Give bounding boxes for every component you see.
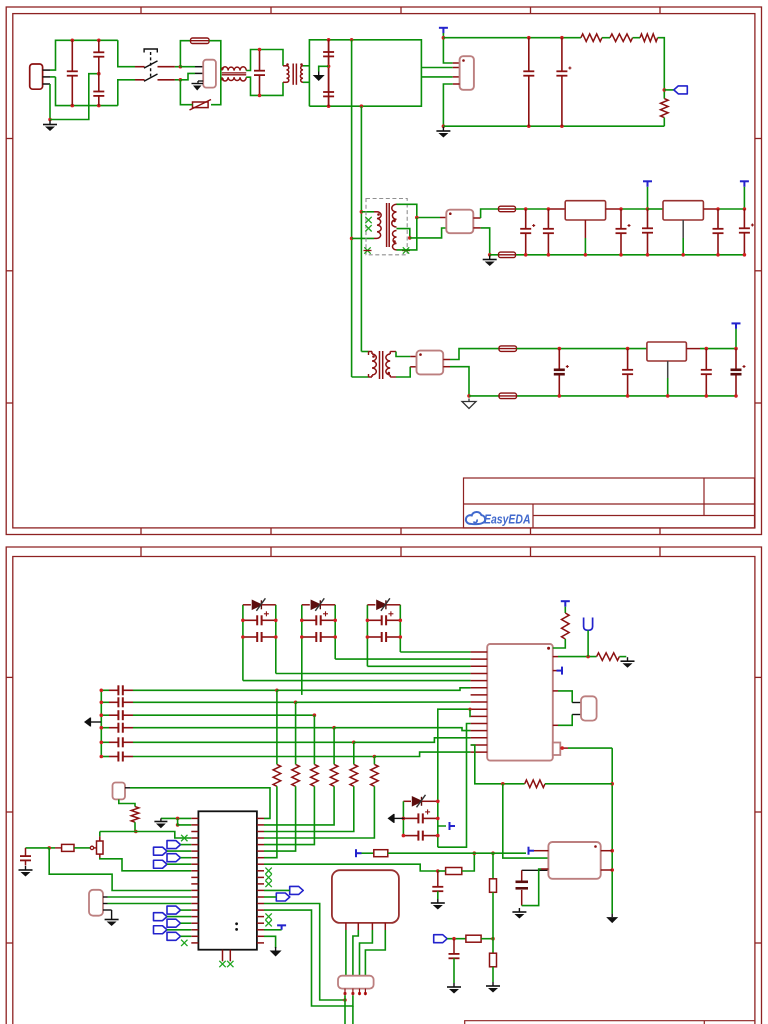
diode D2 — [302, 604, 310, 606]
bottom rail — [443, 125, 664, 127]
resistor R8 — [119, 799, 135, 806]
junction — [71, 39, 75, 43]
capacitor C8 — [520, 209, 535, 255]
long wire MCU right — [264, 864, 438, 871]
VCC side flag — [438, 825, 446, 827]
net tag — [154, 913, 168, 921]
wire — [619, 656, 626, 658]
cap D2 — [302, 632, 335, 642]
wire to MCU nc pin — [136, 832, 192, 839]
junction — [610, 868, 614, 872]
junction — [402, 817, 406, 821]
MCU left pin — [191, 817, 198, 819]
junction — [705, 347, 709, 351]
U7 pin stub — [471, 687, 488, 689]
resistor R11 — [446, 868, 462, 875]
black arrow gnd — [264, 936, 276, 948]
junction — [100, 689, 104, 693]
nc mark — [265, 881, 271, 887]
ground — [606, 914, 618, 924]
wire — [658, 38, 665, 99]
MCU right pin — [257, 850, 264, 852]
regulator U1 — [460, 56, 474, 90]
wire — [735, 329, 737, 349]
MCU right pin — [257, 863, 264, 865]
MCU right pin — [257, 942, 264, 944]
capacitor C30 — [26, 847, 50, 849]
wire down A — [264, 904, 345, 1001]
wire bottom exits — [344, 995, 346, 1024]
junction — [258, 94, 262, 98]
U7 bottom loop — [471, 745, 525, 784]
junction — [743, 253, 747, 257]
snubber group 2 wires — [301, 605, 303, 695]
wire — [175, 66, 181, 68]
snubber group 1 wires — [242, 605, 244, 681]
regulator U6 — [647, 342, 687, 361]
net label tag — [674, 86, 688, 94]
wire — [703, 208, 718, 210]
junction — [415, 216, 419, 220]
wire — [180, 80, 192, 105]
junction — [524, 253, 528, 257]
wire bus line — [133, 689, 277, 691]
resistor R12 — [374, 850, 388, 857]
wire — [648, 208, 664, 210]
wire W2 down — [438, 724, 471, 848]
U7 pin stub — [471, 751, 488, 753]
MCU right pin — [257, 889, 264, 891]
bus cap C20 — [101, 689, 109, 691]
capacitor C11 — [642, 209, 653, 255]
junction — [97, 39, 101, 43]
junction — [332, 726, 336, 730]
MCU gnd top-left — [161, 817, 191, 819]
resistor R1 — [581, 34, 602, 42]
junction — [360, 104, 364, 108]
junction — [586, 655, 590, 659]
resistor R10 — [62, 844, 74, 851]
MCU right pin — [257, 876, 264, 878]
resistor R15 — [373, 757, 375, 765]
pin dot — [364, 992, 367, 995]
wire — [352, 376, 369, 378]
wire — [108, 896, 192, 898]
junction — [646, 207, 650, 211]
ground — [105, 916, 119, 927]
VCC flag — [561, 601, 570, 607]
net tag — [154, 926, 168, 934]
net tag — [167, 906, 181, 914]
wire — [246, 50, 283, 71]
snubber group 3 wires — [366, 605, 368, 667]
MCU left pin — [191, 916, 198, 918]
MCU left pin — [191, 831, 198, 833]
MCU left pin — [191, 837, 198, 839]
wire bus line — [133, 701, 296, 703]
pin dot — [351, 992, 354, 995]
MCU left pin — [191, 935, 198, 937]
resistor R4 — [661, 99, 669, 118]
fuse F5 — [499, 393, 517, 399]
junction — [584, 253, 588, 257]
U7 pin stub — [471, 723, 488, 725]
wire long to MCU pin1 — [125, 787, 130, 789]
capacitor C4 C5 chain — [328, 40, 330, 106]
pin dot — [343, 992, 346, 995]
net tag — [167, 854, 181, 862]
crystal X1 — [553, 690, 558, 692]
wire to U7 pin1 — [400, 651, 470, 653]
net tag — [167, 932, 181, 940]
resistor R14 — [353, 742, 355, 764]
arrow flag — [388, 814, 405, 823]
junction — [179, 65, 183, 69]
wire — [303, 81, 309, 83]
wire — [390, 351, 396, 353]
junction — [343, 998, 347, 1002]
resistor R11 — [295, 702, 297, 764]
relay K1 — [332, 870, 399, 923]
wire W1 to snubber4 — [438, 709, 471, 801]
MCU right pin — [257, 837, 264, 839]
connector J3 — [89, 890, 103, 916]
junction — [610, 782, 614, 786]
junction — [241, 619, 245, 623]
wire long vertical A — [351, 40, 353, 239]
ground — [512, 908, 526, 919]
bus line 6 to pin15 — [374, 752, 470, 756]
resistor R3 — [640, 34, 658, 42]
MCU right pin — [257, 824, 264, 826]
MCU right pin — [257, 857, 264, 859]
wire — [100, 858, 192, 871]
capacitor CY2 — [93, 74, 104, 106]
net tag — [167, 841, 181, 849]
junction — [179, 78, 183, 82]
ground — [436, 127, 450, 138]
junction — [100, 701, 104, 705]
wire — [118, 80, 135, 106]
MCU right pin — [257, 831, 264, 833]
wire — [462, 853, 475, 871]
junction — [558, 347, 562, 351]
MCU left pin — [191, 876, 198, 878]
trimmer R9 — [100, 831, 136, 833]
junction — [327, 38, 331, 42]
wire — [481, 938, 493, 940]
capacitor C15 — [622, 349, 633, 396]
choke windings — [222, 67, 246, 71]
wire — [74, 847, 90, 849]
MCU right pin — [257, 870, 264, 872]
junction — [560, 746, 564, 750]
wire — [447, 938, 466, 940]
VCC flag — [740, 181, 749, 187]
U7 pin stub — [471, 673, 488, 675]
snubber4 polar cap — [403, 809, 437, 823]
U8 pin1 flag — [529, 847, 535, 855]
junction — [436, 834, 440, 838]
junction — [716, 207, 720, 211]
resistor R5 — [564, 607, 566, 613]
wire to opto 2 — [421, 76, 452, 78]
wire — [602, 37, 610, 39]
row2 top rail — [516, 208, 549, 210]
junction — [468, 708, 471, 711]
cap D1 — [243, 632, 276, 642]
junction — [100, 741, 104, 745]
MCU left pin — [191, 896, 198, 898]
ground — [431, 899, 445, 910]
junction — [100, 726, 104, 730]
wire — [545, 783, 612, 785]
wire — [50, 76, 56, 78]
resistor R10 — [276, 690, 278, 764]
wire — [443, 33, 452, 63]
capacitor C10 — [616, 209, 631, 255]
wire — [50, 40, 118, 70]
bus cap C24 — [101, 741, 109, 743]
ground — [486, 982, 500, 993]
U8 left pin3 — [541, 868, 548, 870]
wire — [303, 65, 309, 67]
wire to opto — [421, 67, 452, 69]
bus cap C23 — [101, 727, 109, 729]
MCU left pin — [191, 883, 198, 885]
row3 top rail — [517, 348, 647, 350]
nc mark — [265, 913, 271, 919]
junction — [294, 701, 298, 705]
capacitor C6 — [523, 38, 534, 127]
MCU left pin — [191, 844, 198, 846]
VCC flag — [439, 28, 448, 34]
wire — [443, 366, 450, 368]
junction — [97, 72, 101, 76]
wire — [410, 228, 447, 238]
dashed box T2 — [366, 199, 407, 255]
regulator U3 — [565, 201, 605, 220]
bus cap C25 — [101, 756, 109, 758]
U8 right pins — [601, 850, 613, 852]
MCU left pin — [191, 863, 198, 865]
EasyEDA logo — [466, 512, 531, 527]
junction — [275, 689, 279, 693]
ground — [621, 657, 635, 668]
U7 pin stub — [471, 665, 488, 667]
U7 pad wire — [560, 747, 568, 749]
wire long vertical B2 — [360, 212, 362, 352]
junction — [681, 253, 685, 257]
IC U8 — [548, 842, 600, 879]
MCU right pin — [257, 929, 264, 931]
MCU right pin — [257, 883, 264, 885]
wire bus line — [133, 741, 354, 743]
junction — [626, 347, 630, 351]
wire bus line — [133, 727, 334, 729]
VCC flag — [643, 181, 652, 187]
U6 bottom pin — [667, 361, 669, 378]
switch S1 — [135, 67, 175, 80]
junction — [488, 253, 492, 257]
varistor RV1 — [190, 100, 212, 111]
junction — [274, 619, 278, 623]
junction — [47, 846, 51, 850]
comp J2 top-left — [113, 783, 126, 800]
MCU right pin — [257, 903, 264, 905]
bus arrow — [84, 718, 101, 727]
capacitor C12 — [713, 209, 724, 255]
MCU bottom pins — [222, 950, 224, 962]
wire — [361, 211, 374, 213]
bus line 1 to pin6 — [277, 688, 471, 691]
wire left cap branch — [49, 847, 55, 849]
bus line 2 to pin8 — [296, 701, 471, 703]
junction — [436, 800, 440, 804]
page 2 title block — [465, 1021, 755, 1024]
bus left vertical — [100, 690, 102, 756]
node gnd junction — [48, 118, 52, 122]
big IC U7 — [487, 644, 553, 761]
polar cap D2 — [302, 611, 335, 625]
junction — [716, 253, 720, 257]
MCU right pin — [257, 844, 264, 846]
U7 pin stub — [471, 708, 488, 710]
MCU right pin — [257, 935, 264, 937]
capacitor C7 — [556, 38, 571, 127]
junction — [467, 394, 471, 398]
U7 pin stub — [471, 701, 488, 703]
wire — [473, 217, 480, 219]
wire — [50, 74, 99, 120]
U7 pin stub — [471, 737, 488, 739]
net port — [584, 618, 593, 631]
MCU left pin — [191, 870, 198, 872]
ground — [19, 866, 33, 877]
wire — [319, 66, 329, 71]
common-mode choke L1 body — [180, 66, 195, 68]
snubber4 diode D4 — [403, 800, 411, 802]
VCC small flag — [264, 929, 282, 931]
net tags MCU right — [290, 886, 304, 894]
junction — [491, 937, 495, 941]
capacitor C9 — [543, 209, 554, 255]
junction — [646, 253, 650, 257]
junction — [100, 713, 104, 717]
junction — [705, 394, 709, 398]
junction — [619, 253, 623, 257]
capacitor C32 — [453, 939, 455, 954]
regulator U5 — [417, 351, 444, 375]
wire — [647, 187, 649, 209]
wire — [587, 630, 589, 656]
ground — [313, 72, 325, 82]
bus cap C21 — [101, 701, 109, 703]
wire — [108, 903, 192, 905]
MCU right pin — [257, 909, 264, 911]
wire down B — [264, 910, 353, 1006]
U7 pin stub — [471, 730, 488, 732]
junction — [71, 104, 75, 108]
row2 bottom rail — [490, 254, 745, 256]
junction — [560, 36, 564, 40]
resistor R2 — [610, 34, 633, 42]
page 1 title block — [464, 478, 755, 528]
regulator U4 — [663, 201, 703, 220]
connector J4 — [338, 976, 374, 989]
wire — [743, 187, 745, 209]
fuse F3 — [499, 252, 516, 258]
bulk loop wires — [309, 40, 421, 106]
junction — [97, 104, 101, 108]
wire — [390, 376, 396, 378]
resistor R13 — [466, 935, 481, 942]
ground open — [462, 399, 476, 409]
junction — [333, 619, 337, 623]
junction — [501, 782, 505, 786]
MCU X2 body — [198, 811, 257, 949]
page 2 frame — [6, 547, 761, 1024]
U3 bottom pin — [584, 220, 586, 238]
capacitor C14 — [554, 349, 569, 396]
junction — [134, 830, 138, 834]
junction — [527, 36, 531, 40]
pin jog — [469, 709, 472, 716]
ground — [447, 983, 461, 994]
junction — [473, 851, 477, 855]
resistor R12 — [313, 715, 315, 764]
wire — [361, 351, 368, 353]
long vertical right — [611, 748, 613, 914]
MCU left pin — [191, 824, 198, 826]
resistor R7 — [525, 780, 545, 788]
junction — [626, 394, 630, 398]
wire to U7 pin3 — [367, 665, 470, 667]
resistor R13 — [333, 728, 335, 765]
U4 bottom pin — [682, 220, 684, 238]
nc mark — [181, 940, 187, 946]
wire bus line — [133, 756, 374, 758]
snubber4 left vertical — [402, 801, 404, 835]
wire — [606, 208, 621, 210]
bus line 5 to pin13 — [354, 738, 471, 743]
capacitor C3 — [254, 50, 265, 96]
transformer T3 — [368, 352, 370, 356]
MCU left pin — [191, 903, 198, 905]
junction — [610, 849, 614, 853]
wire — [175, 79, 181, 81]
polar cap C33 — [522, 869, 549, 871]
junction — [666, 394, 670, 398]
net tag — [154, 860, 168, 868]
junction — [333, 635, 337, 639]
junction — [408, 236, 412, 240]
fuse F2 — [499, 206, 516, 212]
MCU right pin — [257, 817, 264, 819]
junction — [734, 347, 738, 351]
nc mark — [181, 835, 187, 841]
junction — [100, 755, 104, 759]
wire long vertical A2 — [351, 238, 353, 377]
wire U8 net — [503, 784, 549, 858]
svg-text:EasyEDA: EasyEDA — [484, 512, 531, 527]
MCU right pin — [257, 916, 264, 918]
junction — [734, 394, 738, 398]
ground — [483, 256, 497, 267]
fuse F4 — [499, 346, 517, 352]
capacitor C31 — [437, 871, 439, 887]
junction — [402, 834, 406, 838]
